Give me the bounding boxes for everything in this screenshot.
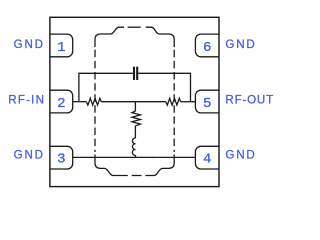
capacitor C1 left plate — [133, 67, 135, 80]
resistor R3 shunt — [132, 111, 140, 126]
junction on bottom rail — [153, 156, 155, 158]
wire: capacitor rail to right riser down — [138, 73, 190, 101]
svg-text:3: 3 — [57, 151, 65, 167]
svg-text:RF-OUT: RF-OUT — [225, 94, 274, 107]
dashed element outline: top dashes — [128, 26, 146, 28]
pin 1 box — [50, 34, 73, 57]
dashed element outline: right vertical dashes — [173, 50, 175, 152]
resistor R1 — [86, 98, 101, 105]
wire: left riser up to capacitor rail — [79, 73, 133, 101]
wire: R3 to inductor L1 — [134, 126, 136, 138]
svg-text:RF-IN: RF-IN — [8, 94, 45, 107]
svg-text:GND: GND — [225, 38, 256, 51]
svg-text:GND: GND — [14, 38, 45, 51]
resistor R2 — [166, 98, 181, 105]
pin 4 box — [195, 146, 219, 169]
svg-text:6: 6 — [203, 40, 211, 56]
svg-text:1: 1 — [57, 40, 65, 56]
svg-text:2: 2 — [57, 96, 65, 112]
dashed element outline: top-left corner + step (solid) — [95, 27, 124, 47]
pin 2 box — [50, 90, 73, 113]
wire: R2 to pin5 — [181, 101, 196, 103]
capacitor C1 right plate — [136, 67, 138, 80]
wire: pin2 to R1 — [73, 101, 87, 103]
pin 5 box — [195, 90, 219, 113]
wire: R1 to center node to R2 — [101, 101, 166, 103]
svg-text:4: 4 — [203, 151, 211, 167]
svg-text:GND: GND — [225, 148, 256, 161]
dashed element outline: top-right step + corner (solid) — [146, 27, 175, 47]
inductor L1 — [132, 138, 135, 155]
dashed element outline: bottom dashes — [118, 175, 149, 177]
wire: L1 to bottom rail — [135, 155, 137, 157]
pin 3 box — [50, 146, 73, 169]
wire: center node down to R3 — [134, 102, 136, 111]
wire: bottom rail pin3 to pin4 — [73, 156, 196, 158]
dashed element outline: bottom-left corner + step (solid) — [95, 155, 118, 176]
dashed element outline: bottom-right step + corner (solid) — [149, 155, 174, 176]
svg-text:5: 5 — [203, 96, 211, 112]
pin 6 box — [195, 34, 219, 57]
package outline — [50, 17, 219, 186]
dashed element outline: left vertical dashes — [94, 50, 96, 152]
svg-text:GND: GND — [14, 148, 45, 161]
